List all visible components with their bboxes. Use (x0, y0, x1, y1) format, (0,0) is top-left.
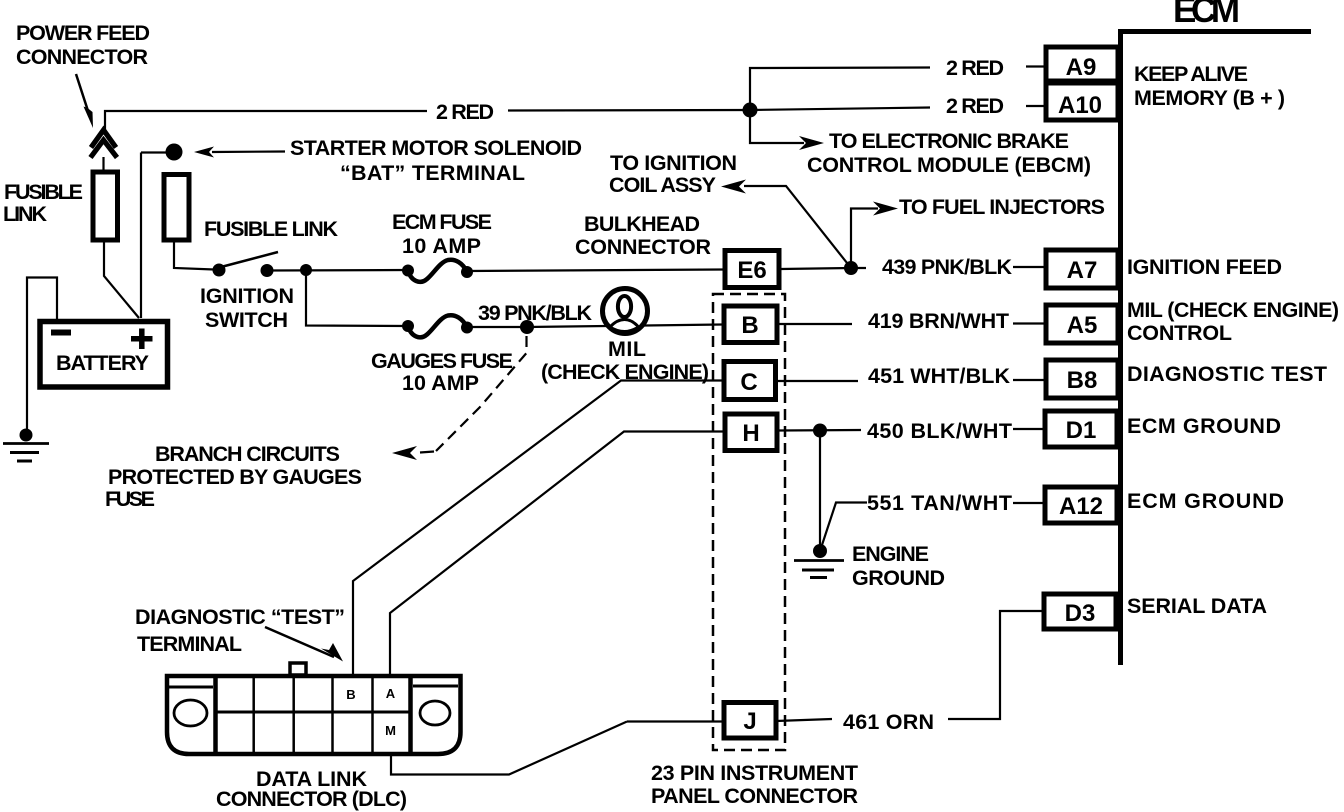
svg-text:450 BLK/WHT: 450 BLK/WHT (867, 419, 1012, 443)
svg-text:MIL: MIL (608, 337, 646, 361)
svg-text:STARTER MOTOR SOLENOID: STARTER MOTOR SOLENOID (290, 136, 582, 160)
svg-text:CONNECTOR: CONNECTOR (16, 45, 148, 69)
svg-text:ECM: ECM (1173, 0, 1240, 30)
svg-text:551 TAN/WHT: 551 TAN/WHT (867, 491, 1012, 515)
svg-text:CONTROL MODULE (EBCM): CONTROL MODULE (EBCM) (807, 153, 1091, 177)
svg-text:B8: B8 (1067, 367, 1098, 394)
svg-text:PANEL CONNECTOR: PANEL CONNECTOR (651, 784, 858, 808)
svg-text:2 RED: 2 RED (436, 100, 494, 124)
svg-text:451 WHT/BLK: 451 WHT/BLK (868, 364, 1010, 388)
svg-text:A10: A10 (1058, 92, 1102, 119)
svg-text:TO IGNITION: TO IGNITION (610, 151, 737, 175)
svg-text:J: J (743, 708, 756, 735)
svg-text:10 AMP: 10 AMP (402, 234, 481, 258)
svg-text:439 PNK/BLK: 439 PNK/BLK (882, 255, 1012, 279)
svg-text:KEEP ALIVE: KEEP ALIVE (1134, 62, 1248, 86)
svg-text:MEMORY (B + ): MEMORY (B + ) (1134, 86, 1285, 110)
svg-text:(CHECK ENGINE): (CHECK ENGINE) (541, 360, 709, 384)
svg-text:POWER FEED: POWER FEED (16, 21, 150, 45)
svg-text:A9: A9 (1066, 54, 1097, 81)
svg-text:GROUND: GROUND (852, 566, 945, 590)
svg-text:GAUGES FUSE: GAUGES FUSE (371, 349, 513, 373)
svg-text:M: M (385, 723, 396, 738)
svg-text:FUSIBLE: FUSIBLE (4, 180, 83, 204)
svg-text:D3: D3 (1065, 600, 1096, 627)
svg-text:PROTECTED BY GAUGES: PROTECTED BY GAUGES (108, 465, 362, 489)
svg-text:DIAGNOSTIC TEST: DIAGNOSTIC TEST (1127, 362, 1327, 386)
svg-text:DIAGNOSTIC “TEST”: DIAGNOSTIC “TEST” (135, 605, 345, 629)
svg-text:B: B (741, 312, 758, 339)
svg-text:“BAT” TERMINAL: “BAT” TERMINAL (340, 161, 525, 185)
svg-text:CONTROL: CONTROL (1127, 321, 1232, 345)
svg-text:C: C (740, 369, 757, 396)
svg-text:CONNECTOR (DLC): CONNECTOR (DLC) (216, 787, 407, 811)
svg-text:ECM FUSE: ECM FUSE (392, 210, 492, 234)
svg-text:TO ELECTRONIC BRAKE: TO ELECTRONIC BRAKE (829, 129, 1069, 153)
svg-text:H: H (742, 420, 759, 447)
svg-text:23 PIN INSTRUMENT: 23 PIN INSTRUMENT (651, 761, 858, 785)
svg-text:TERMINAL: TERMINAL (137, 632, 242, 656)
svg-text:CONNECTOR: CONNECTOR (575, 235, 711, 259)
svg-text:461 ORN: 461 ORN (843, 710, 934, 734)
svg-text:2 RED: 2 RED (946, 56, 1004, 80)
svg-text:A5: A5 (1067, 312, 1098, 339)
svg-text:B: B (346, 687, 355, 702)
svg-text:SERIAL DATA: SERIAL DATA (1127, 594, 1267, 618)
svg-text:BRANCH CIRCUITS: BRANCH CIRCUITS (155, 442, 340, 466)
svg-text:A: A (386, 686, 396, 701)
svg-text:ECM GROUND: ECM GROUND (1127, 489, 1284, 513)
svg-text:419 BRN/WHT: 419 BRN/WHT (868, 309, 1009, 333)
svg-text:39 PNK/BLK: 39 PNK/BLK (478, 301, 592, 325)
svg-text:SWITCH: SWITCH (205, 308, 288, 332)
svg-text:FUSIBLE LINK: FUSIBLE LINK (204, 217, 338, 241)
svg-text:D1: D1 (1066, 417, 1097, 444)
svg-text:COIL ASSY: COIL ASSY (609, 173, 716, 197)
svg-text:ECM GROUND: ECM GROUND (1127, 414, 1281, 438)
svg-text:E6: E6 (737, 257, 766, 284)
svg-text:IGNITION FEED: IGNITION FEED (1127, 255, 1282, 279)
svg-text:BATTERY: BATTERY (56, 351, 149, 375)
svg-text:10 AMP: 10 AMP (402, 371, 479, 395)
svg-text:A7: A7 (1067, 257, 1098, 284)
svg-text:MIL (CHECK ENGINE): MIL (CHECK ENGINE) (1127, 298, 1339, 322)
svg-text:TO FUEL INJECTORS: TO FUEL INJECTORS (899, 195, 1105, 219)
svg-text:A12: A12 (1059, 493, 1103, 520)
svg-text:ENGINE: ENGINE (852, 542, 929, 566)
svg-text:LINK: LINK (3, 202, 47, 226)
svg-text:BULKHEAD: BULKHEAD (584, 212, 700, 236)
svg-text:IGNITION: IGNITION (200, 284, 294, 308)
svg-text:FUSE: FUSE (105, 487, 155, 511)
svg-text:2 RED: 2 RED (946, 94, 1004, 118)
